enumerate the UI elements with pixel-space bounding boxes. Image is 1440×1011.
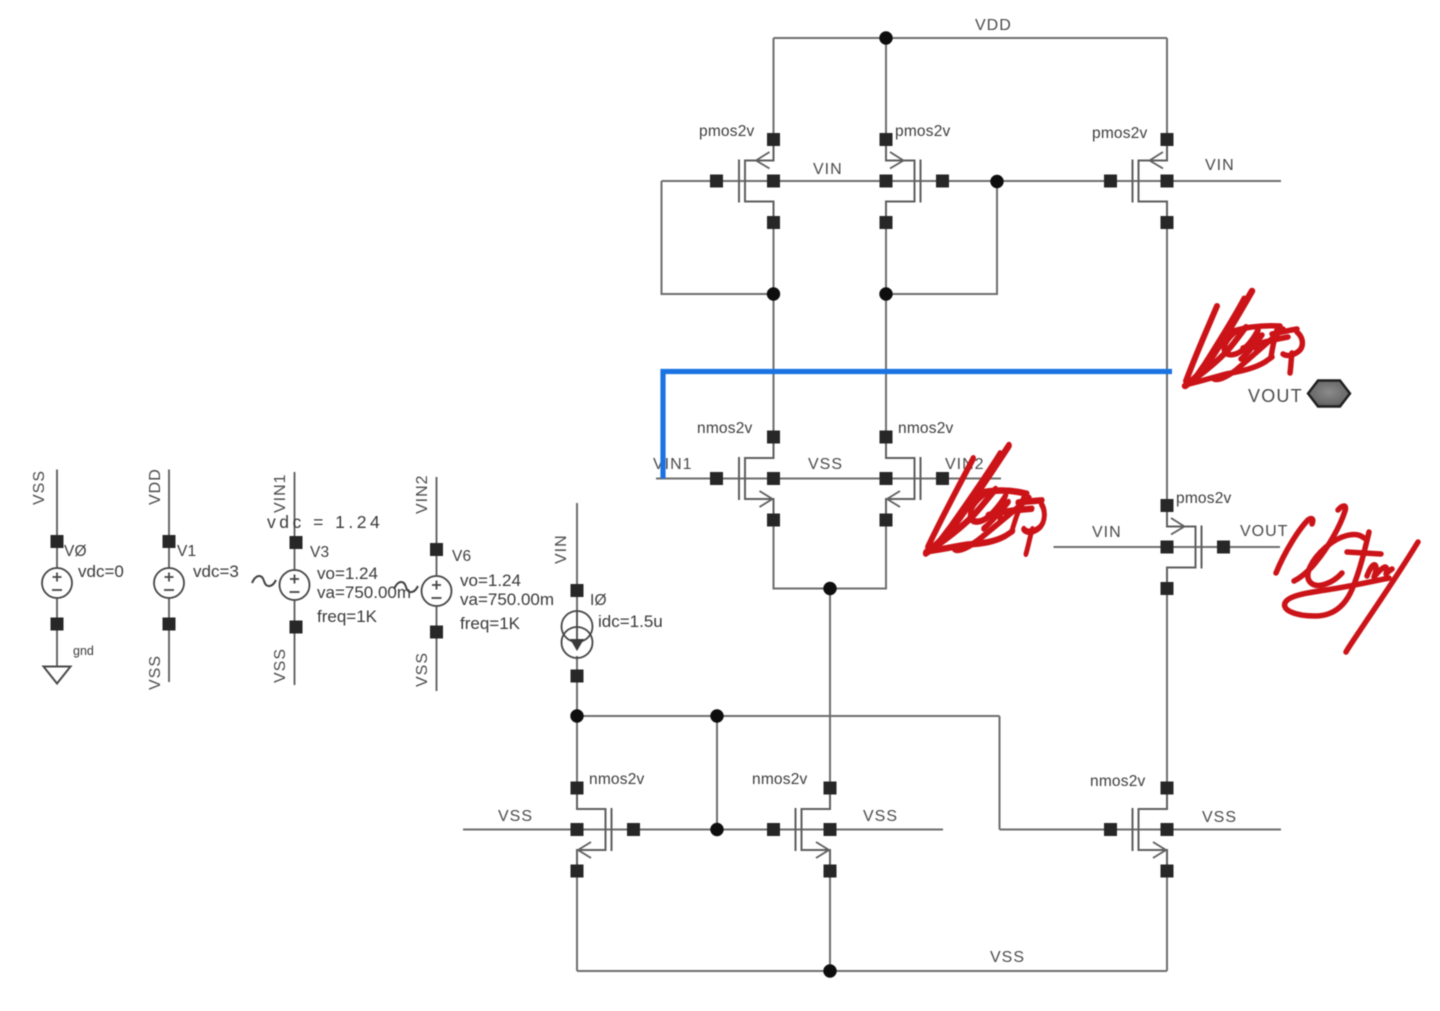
junction P2 gate loop top bbox=[990, 175, 1003, 188]
annotation red scribble VREF (crossed) upper-right bbox=[1185, 291, 1302, 386]
wire V1 top stub VDD bbox=[168, 470, 170, 569]
current source I0 bbox=[553, 534, 663, 682]
svg-text:VSS: VSS bbox=[990, 949, 1025, 966]
svg-text:V6: V6 bbox=[452, 548, 471, 565]
wire bottom-right gate row VSS bbox=[1000, 829, 1282, 831]
transistor P1 pmos2v top-left bbox=[699, 123, 780, 229]
wire P1 diode loop bbox=[662, 181, 774, 294]
junction I0 to mirror bbox=[570, 709, 583, 722]
wire right mirror jog bbox=[999, 716, 1001, 830]
svg-text:VSS: VSS bbox=[272, 648, 289, 683]
wire N4 source to VSS rail bbox=[829, 850, 831, 971]
annotation red scribble VREF (crossed) middle bbox=[926, 435, 1055, 572]
wire VDD right drop to P3 source bbox=[1166, 38, 1168, 161]
svg-text:pmos2v: pmos2v bbox=[699, 123, 755, 140]
svg-text:VSS: VSS bbox=[147, 655, 164, 690]
wire V0 top stub VSS bbox=[56, 470, 58, 569]
svg-text:VSS: VSS bbox=[498, 808, 533, 825]
transistor N2 nmos2v diff-pair right bbox=[880, 420, 954, 527]
svg-text:V3: V3 bbox=[310, 544, 329, 561]
svg-text:VIN: VIN bbox=[553, 534, 570, 564]
wire bottom-left gate row VSS bbox=[463, 829, 943, 831]
junction mirror gate row bbox=[710, 823, 723, 836]
wire N2 source to tail bbox=[830, 499, 886, 589]
svg-text:pmos2v: pmos2v bbox=[1176, 490, 1232, 507]
svg-text:freq=1K: freq=1K bbox=[460, 614, 521, 633]
svg-text:vo=1.24: vo=1.24 bbox=[460, 571, 521, 590]
svg-text:pmos2v: pmos2v bbox=[895, 123, 951, 140]
wire VDD left drop to P1 source bbox=[773, 38, 775, 161]
annotation red handwriting Vctrl bbox=[1276, 506, 1418, 652]
wire I0 bottom to mirror node bbox=[576, 656, 578, 716]
voltage source V3 bbox=[252, 472, 411, 685]
transistor N1 nmos2v diff-pair left bbox=[697, 420, 780, 527]
wire V6 bottom stub VSS bbox=[436, 606, 438, 691]
wire V3 bottom stub VSS bbox=[294, 600, 296, 685]
svg-text:IØ: IØ bbox=[590, 592, 607, 609]
svg-text:VIN: VIN bbox=[813, 161, 843, 178]
transistor P3 pmos2v top-right bbox=[1092, 125, 1174, 229]
sine mark V3 bbox=[252, 576, 276, 586]
wire mirror node row bbox=[577, 715, 1000, 717]
svg-text:nmos2v: nmos2v bbox=[898, 420, 954, 437]
svg-text:freq=1K: freq=1K bbox=[317, 607, 378, 626]
transistor N5 nmos2v bottom-right bbox=[1090, 773, 1174, 878]
junction VSS rail bbox=[823, 964, 836, 977]
wire VDD mid drop to P2 source bbox=[885, 38, 887, 161]
wire V3 top stub VIN1 bbox=[294, 472, 296, 570]
junction VDD rail bbox=[879, 31, 892, 44]
junction diff tail bbox=[823, 582, 836, 595]
highlighted blue wire bbox=[663, 372, 1172, 479]
svg-text:VIN1: VIN1 bbox=[272, 473, 289, 513]
wire N3 source to VSS rail bbox=[576, 850, 578, 971]
wire P2 drain to N2 drain bbox=[885, 202, 887, 459]
svg-text:idc=1.5u: idc=1.5u bbox=[598, 612, 663, 631]
svg-text:VSS: VSS bbox=[31, 470, 48, 505]
svg-text:vdc=0: vdc=0 bbox=[78, 562, 124, 581]
transistor N4 nmos2v bottom-middle bbox=[752, 771, 837, 878]
svg-text:vdc=3: vdc=3 bbox=[193, 562, 239, 581]
svg-text:VIN1: VIN1 bbox=[653, 456, 693, 473]
svg-text:VSS: VSS bbox=[808, 456, 843, 473]
junction mirror gate bbox=[710, 709, 723, 722]
svg-text:VOUT: VOUT bbox=[1248, 386, 1303, 406]
svg-text:vdc = 1.24: vdc = 1.24 bbox=[267, 512, 383, 532]
wire V6 top stub VIN2 bbox=[436, 477, 438, 576]
wire diff-pair gate row VIN1/VSS/VIN2 bbox=[656, 478, 1001, 480]
svg-text:va=750.00m: va=750.00m bbox=[460, 590, 554, 609]
wire gate row VIN (top) bbox=[662, 180, 1282, 182]
wire N5 source to VSS rail bbox=[1166, 850, 1168, 971]
svg-text:VSS: VSS bbox=[1202, 809, 1237, 826]
wire VDD rail bbox=[774, 37, 1168, 39]
svg-text:V1: V1 bbox=[177, 543, 196, 560]
svg-text:gnd: gnd bbox=[73, 644, 94, 658]
svg-text:nmos2v: nmos2v bbox=[752, 771, 808, 788]
sine mark V6 bbox=[394, 582, 418, 592]
wire tail down to N4 drain bbox=[829, 589, 831, 810]
wire VSS bottom rail bbox=[577, 970, 1167, 972]
svg-text:nmos2v: nmos2v bbox=[697, 420, 753, 437]
voltage source V6 bbox=[394, 474, 554, 691]
transistor P4 pmos2v second stage bbox=[1161, 490, 1232, 595]
svg-text:VØ: VØ bbox=[64, 543, 87, 560]
svg-text:pmos2v: pmos2v bbox=[1092, 125, 1148, 142]
svg-text:VIN: VIN bbox=[1205, 157, 1235, 174]
svg-text:va=750.00m: va=750.00m bbox=[317, 583, 411, 602]
svg-text:nmos2v: nmos2v bbox=[1090, 773, 1146, 790]
svg-text:VDD: VDD bbox=[147, 468, 164, 505]
wire N1 source to tail bbox=[774, 499, 831, 589]
svg-text:nmos2v: nmos2v bbox=[589, 771, 645, 788]
svg-text:VOUT: VOUT bbox=[1240, 523, 1288, 540]
wire P2 gate loop bbox=[886, 181, 997, 294]
wire V0 bottom stub gnd bbox=[56, 598, 58, 666]
wire V1 bottom stub VSS bbox=[168, 598, 170, 682]
voltage source V0 bbox=[31, 470, 124, 684]
svg-text:VIN: VIN bbox=[1092, 524, 1122, 541]
wire P1 drain to N1 drain bbox=[773, 202, 775, 459]
wire I0 column top stub VIN bbox=[576, 503, 578, 612]
transistor N3 nmos2v bottom-left bbox=[571, 771, 645, 878]
pin hexagon VOUT bbox=[0, 0, 1, 1]
voltage source V1 bbox=[147, 468, 239, 690]
wire mirror gate drop bbox=[716, 716, 718, 830]
svg-text:vo=1.24: vo=1.24 bbox=[317, 564, 378, 583]
svg-text:VSS: VSS bbox=[414, 652, 431, 687]
wire N3 drain drop bbox=[576, 716, 578, 809]
svg-text:VSS: VSS bbox=[863, 808, 898, 825]
junction P1 diode node bbox=[767, 287, 780, 300]
svg-text:VIN2: VIN2 bbox=[414, 474, 431, 514]
wire P4 drain to N5 drain bbox=[1166, 568, 1168, 810]
junction P2 loop bottom bbox=[879, 287, 892, 300]
wire second-stage gate row VIN/VOUT bbox=[1054, 546, 1281, 548]
wire P3 drain down to P4 source bbox=[1166, 202, 1168, 527]
svg-text:VDD: VDD bbox=[975, 17, 1012, 34]
transistor P2 pmos2v top-middle bbox=[880, 123, 951, 229]
